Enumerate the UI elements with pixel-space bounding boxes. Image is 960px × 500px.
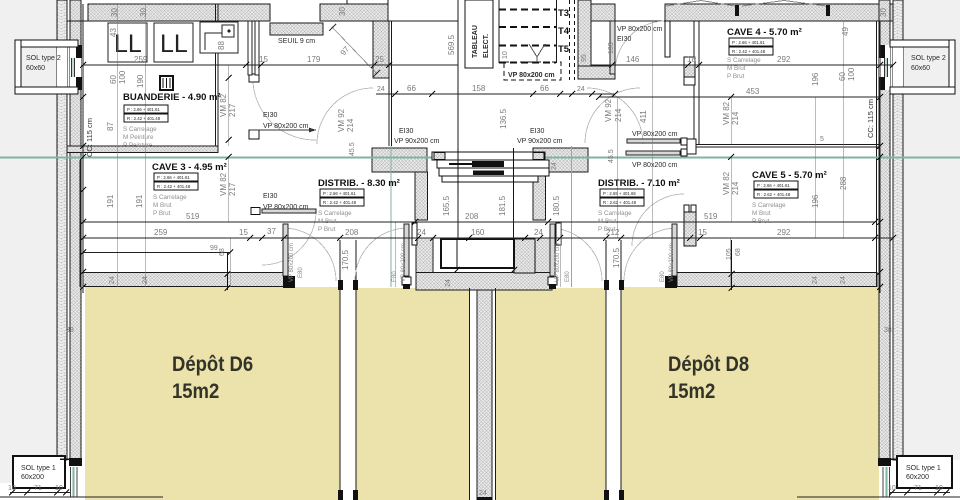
svg-text:15: 15	[239, 228, 248, 237]
dim line y94 center	[376, 93, 615, 95]
ticks y97 right	[596, 94, 883, 100]
elevator band C	[439, 168, 549, 176]
svg-text:103: 103	[608, 42, 615, 54]
svg-text:S Carrelage: S Carrelage	[598, 210, 632, 217]
jamb small cell2	[412, 223, 417, 245]
svg-text:100: 100	[847, 67, 856, 81]
svg-text:190: 190	[136, 74, 145, 88]
svg-text:43: 43	[109, 28, 118, 37]
svg-text:DISTRIB. - 8.30 m²: DISTRIB. - 8.30 m²	[318, 178, 400, 189]
svg-text:66: 66	[407, 84, 416, 93]
svg-text:30: 30	[139, 8, 148, 17]
window bottom-right	[879, 465, 890, 497]
svg-text:R : 2.42 + 401.48: R : 2.42 + 401.48	[323, 200, 357, 205]
door double leaves cave4/5	[627, 139, 680, 143]
stair direction arrow	[529, 44, 545, 57]
svg-text:214: 214	[731, 181, 740, 195]
svg-text:P Brut: P Brut	[153, 210, 171, 217]
finish table buanderie	[124, 105, 168, 122]
wall cell1/2 divider	[339, 240, 341, 500]
sol type 2 right box	[890, 40, 955, 94]
wall top inner line	[67, 20, 270, 22]
svg-text:15m2: 15m2	[172, 380, 219, 404]
svg-text:15m2: 15m2	[668, 380, 715, 404]
svg-text:60: 60	[109, 75, 118, 84]
wall stair right strip	[533, 172, 546, 220]
svg-text:66: 66	[540, 84, 549, 93]
wall interior right	[876, 21, 878, 287]
svg-text:VP 90x200 cm: VP 90x200 cm	[517, 138, 563, 145]
svg-text:VP 80x200 cm: VP 80x200 cm	[632, 162, 678, 169]
svg-text:CAVE 4 - 5.70 m²: CAVE 4 - 5.70 m²	[727, 27, 802, 38]
svg-text:453: 453	[746, 87, 760, 96]
wall seuil band	[270, 23, 323, 35]
room label depot D6	[172, 353, 253, 404]
svg-text:214: 214	[346, 118, 355, 132]
svg-text:5: 5	[820, 136, 824, 143]
svg-text:VP 80x200 cm: VP 80x200 cm	[401, 243, 407, 282]
door arcs (gray)	[253, 21, 684, 281]
svg-text:30: 30	[338, 7, 347, 16]
door leaf cave3 (horizontal)	[262, 209, 316, 213]
stem bottom cap	[477, 497, 492, 500]
svg-text:30: 30	[110, 8, 119, 17]
svg-text:18: 18	[687, 55, 696, 64]
dim extension lines	[117, 4, 843, 287]
svg-text:165.5: 165.5	[442, 195, 451, 216]
door jamb entrance	[248, 21, 252, 75]
elevator band B (dark)	[437, 160, 549, 168]
door jamb cave4 left	[684, 57, 695, 65]
tableau elect box	[465, 0, 493, 68]
svg-text:10: 10	[888, 485, 896, 492]
svg-text:P Brut: P Brut	[318, 226, 336, 233]
svg-text:24: 24	[142, 276, 149, 284]
sol type 1 left box	[13, 456, 65, 488]
svg-text:E80: E80	[660, 271, 666, 282]
ticks x880 vertical	[877, 62, 883, 290]
svg-text:10: 10	[8, 485, 16, 492]
svg-text:SOL type 1: SOL type 1	[906, 465, 941, 472]
wall top band segment 2 (entrance block)	[320, 4, 388, 21]
svg-text:179: 179	[307, 55, 321, 64]
dim line y222	[83, 221, 875, 223]
svg-text:CAVE 5 - 5.70 m²: CAVE 5 - 5.70 m²	[752, 170, 827, 181]
wall buanderie right	[215, 4, 217, 146]
svg-text:S Carrelage: S Carrelage	[752, 202, 786, 209]
room Depot D6 floor	[85, 287, 340, 500]
svg-text:VM 82: VM 82	[722, 101, 731, 125]
wall stair left x458	[457, 0, 459, 239]
wall buanderie/cave3 divider	[67, 146, 218, 153]
svg-text:CAVE 3 - 4.95 m²: CAVE 3 - 4.95 m²	[152, 162, 227, 173]
svg-text:P : 2.66 + 401.61: P : 2.66 + 401.61	[157, 175, 190, 180]
dim line y97 right	[599, 96, 880, 98]
svg-text:170.5: 170.5	[341, 249, 350, 270]
stair boundary dashed	[504, 0, 575, 80]
dim crossing D8 band	[731, 240, 733, 290]
svg-text:24: 24	[417, 228, 426, 237]
wall stair U bottom	[416, 273, 552, 291]
window bottom-left	[70, 465, 81, 497]
dim line bottom left	[0, 496, 163, 498]
svg-text:EI30: EI30	[263, 112, 278, 119]
svg-text:217: 217	[228, 182, 237, 196]
svg-text:60x200: 60x200	[906, 474, 929, 481]
wall above depot D8	[677, 273, 877, 287]
svg-text:170.5: 170.5	[612, 247, 621, 268]
svg-text:P : 2.69 + 401.65: P : 2.69 + 401.65	[603, 191, 636, 196]
svg-text:R : 2.42 + 401.48: R : 2.42 + 401.48	[157, 184, 191, 189]
svg-text:191: 191	[135, 194, 144, 208]
svg-text:160: 160	[471, 228, 485, 237]
ticks bottom	[9, 490, 69, 496]
svg-text:VP 80x200 cm: VP 80x200 cm	[289, 243, 295, 282]
door arc cave3	[262, 211, 316, 265]
svg-text:E80: E80	[298, 267, 304, 278]
svg-text:208: 208	[345, 228, 359, 237]
rotated dim numbers	[66, 7, 892, 334]
svg-text:VP 80x200 cm: VP 80x200 cm	[669, 243, 675, 282]
svg-text:CC: 115 cm: CC: 115 cm	[866, 99, 875, 138]
svg-text:38: 38	[66, 327, 74, 334]
svg-text:M Brut: M Brut	[598, 218, 617, 225]
appliance washer icon	[160, 76, 173, 90]
svg-text:214: 214	[614, 108, 623, 122]
svg-text:68: 68	[219, 248, 226, 256]
svg-text:LL: LL	[114, 30, 142, 58]
svg-text:VP 80x200 cm: VP 80x200 cm	[617, 26, 663, 33]
sol type 2 left box	[15, 40, 78, 94]
svg-text:M Brut: M Brut	[752, 210, 771, 217]
svg-text:136.5: 136.5	[499, 108, 508, 129]
svg-text:519: 519	[186, 212, 200, 221]
wall above depot D6	[83, 273, 284, 287]
svg-text:146: 146	[626, 55, 640, 64]
wall cell3/4 divider	[605, 240, 607, 500]
wall cave4 left	[693, 21, 695, 144]
roof outline above cave4	[666, 1, 826, 7]
svg-text:S Carrelage: S Carrelage	[123, 126, 157, 133]
svg-text:S Carrelage: S Carrelage	[727, 57, 761, 64]
svg-text:VM 92: VM 92	[604, 98, 613, 122]
svg-text:S Carrelage: S Carrelage	[318, 210, 352, 217]
ticks x83 vertical	[80, 62, 86, 290]
svg-text:VP 90x200 cm: VP 90x200 cm	[394, 138, 440, 145]
ticks y94	[392, 91, 618, 97]
svg-text:24: 24	[840, 276, 847, 284]
door arc depot D8	[624, 228, 675, 281]
svg-text:158: 158	[472, 84, 486, 93]
door arc cave5	[632, 194, 684, 246]
wall stair right upper	[533, 148, 588, 172]
wall stub right of cave4 door	[665, 21, 670, 57]
svg-text:E80: E80	[392, 271, 398, 282]
dim crossing D6 band	[227, 253, 229, 290]
svg-text:T3: T3	[558, 8, 569, 19]
svg-text:49: 49	[841, 27, 850, 36]
svg-text:E80: E80	[565, 271, 571, 282]
svg-text:ELECT.: ELECT.	[483, 34, 490, 58]
svg-text:P : 2.66 + 401.61: P : 2.66 + 401.61	[757, 183, 790, 188]
svg-text:10: 10	[55, 485, 63, 492]
dim vertical x83	[82, 21, 84, 293]
svg-text:R : 2.42 + 401.48: R : 2.42 + 401.48	[732, 49, 766, 54]
room cell2 floor	[356, 288, 469, 500]
svg-text:24: 24	[534, 228, 543, 237]
wall stair U right	[535, 238, 552, 290]
door swing line buanderie	[250, 129, 316, 131]
door arc cell3	[551, 228, 602, 281]
room cell3 floor	[496, 288, 606, 500]
door arc corridor right	[585, 88, 640, 143]
dim line bottom right	[797, 496, 960, 498]
svg-text:45.5: 45.5	[608, 149, 615, 163]
wall stair U left	[416, 238, 433, 290]
svg-text:P : 2.66 + 401.61: P : 2.66 + 401.61	[732, 40, 765, 45]
stair treads dashed	[499, 10, 556, 63]
stair landing guard	[514, 239, 535, 273]
svg-text:68: 68	[735, 248, 742, 256]
door leaf depot D6 (open)	[283, 224, 288, 276]
svg-text:24: 24	[812, 276, 819, 284]
wall right exterior	[893, 0, 903, 460]
svg-text:217: 217	[228, 103, 237, 117]
svg-text:VP 80x200 cm: VP 80x200 cm	[632, 131, 678, 138]
wall stair top strip	[578, 0, 591, 79]
svg-text:TABLEAU: TABLEAU	[472, 25, 479, 58]
svg-text:259: 259	[154, 228, 168, 237]
svg-text:VP 80x200 cm: VP 80x200 cm	[263, 123, 309, 130]
wall stair left strip	[415, 172, 428, 220]
svg-text:196: 196	[811, 72, 820, 86]
svg-text:71: 71	[34, 485, 42, 492]
svg-text:VM 82: VM 82	[219, 172, 228, 196]
svg-text:60x60: 60x60	[911, 65, 930, 72]
svg-text:R : 2.62 + 401.48: R : 2.62 + 401.48	[757, 192, 791, 197]
wall entrance pier	[373, 21, 389, 78]
door leaf cave4 top (open)	[610, 21, 615, 74]
svg-text:88: 88	[217, 41, 226, 50]
wall corridor left x389	[388, 21, 390, 146]
svg-text:P Brut: P Brut	[727, 73, 745, 80]
svg-text:T5: T5	[558, 44, 570, 55]
wall center stem edges	[469, 288, 471, 500]
svg-text:VP 80x200 cm: VP 80x200 cm	[508, 72, 555, 79]
sol type 1 right box	[897, 456, 952, 488]
svg-text:71: 71	[914, 485, 922, 492]
svg-text:214: 214	[731, 111, 740, 125]
svg-text:519: 519	[704, 212, 718, 221]
svg-text:15: 15	[698, 228, 707, 237]
ticks y238	[80, 235, 896, 241]
dim line y238 full	[83, 237, 893, 239]
svg-text:45.5: 45.5	[349, 142, 356, 156]
svg-text:100: 100	[118, 70, 127, 84]
door frame cave4/5	[681, 138, 687, 145]
svg-text:M Brut: M Brut	[727, 65, 746, 72]
svg-text:P : 2.66 + 401.61: P : 2.66 + 401.61	[323, 191, 356, 196]
door leaf cell2 (open)	[404, 224, 409, 276]
svg-text:87: 87	[106, 122, 115, 131]
svg-text:37: 37	[267, 227, 276, 236]
svg-text:24: 24	[577, 86, 585, 93]
svg-text:M Brut: M Brut	[153, 202, 172, 209]
svg-text:24: 24	[109, 276, 116, 284]
room label depot D8	[668, 353, 749, 404]
svg-text:60x60: 60x60	[26, 65, 45, 72]
svg-text:P Peinture: P Peinture	[123, 142, 153, 149]
svg-text:24: 24	[445, 279, 452, 287]
svg-text:S Carrelage: S Carrelage	[153, 194, 187, 201]
door arc buanderie	[253, 83, 316, 140]
svg-text:25: 25	[375, 55, 384, 64]
svg-text:24: 24	[377, 86, 385, 93]
svg-text:95: 95	[581, 54, 588, 62]
door arc cave4 top	[615, 21, 664, 72]
svg-text:M Brut: M Brut	[318, 218, 337, 225]
svg-text:T4: T4	[558, 26, 570, 37]
door jamb cave5	[684, 205, 689, 212]
wall cave4/5 divider	[694, 144, 880, 146]
svg-text:SOL type 1: SOL type 1	[21, 465, 56, 472]
svg-text:EI30: EI30	[617, 36, 632, 43]
wall stair tread edge	[498, 0, 500, 63]
svg-text:Dépôt D8: Dépôt D8	[668, 353, 749, 377]
svg-text:30: 30	[879, 8, 888, 17]
wall stair left upper	[372, 148, 427, 172]
door labels rotated	[289, 243, 675, 282]
svg-text:259: 259	[134, 55, 148, 64]
room Depot D8 floor	[621, 287, 879, 500]
svg-text:BUANDERIE - 4.90 m²: BUANDERIE - 4.90 m²	[123, 92, 221, 103]
wall top band segment 3	[591, 4, 615, 21]
svg-text:292: 292	[777, 228, 791, 237]
elevator band A	[432, 152, 545, 160]
jamb caps cell walls	[338, 280, 624, 500]
wall exterior edges	[56, 0, 58, 460]
door arc cell2	[355, 228, 406, 281]
appliance LL box 2	[154, 23, 193, 62]
svg-text:EI30: EI30	[530, 128, 545, 135]
svg-text:196: 196	[811, 194, 820, 208]
wall top band segment 4	[665, 4, 893, 21]
svg-text:VM 92: VM 92	[337, 108, 346, 132]
svg-text:180.5: 180.5	[552, 195, 561, 216]
svg-text:105: 105	[726, 248, 733, 260]
svg-text:24: 24	[551, 162, 558, 170]
svg-text:R : 2.42 + 401.48: R : 2.42 + 401.48	[127, 116, 161, 121]
svg-text:R : 2.62 + 401.48: R : 2.62 + 401.48	[603, 200, 637, 205]
window left (CC 115)	[57, 45, 82, 90]
svg-text:292: 292	[777, 55, 791, 64]
door arc depot D6	[285, 228, 336, 281]
appliance boiler	[200, 22, 238, 53]
section line vertical right (teal)	[571, 146, 573, 287]
exterior ground left	[0, 0, 57, 483]
svg-text:DISTRIB. - 7.10 m²: DISTRIB. - 7.10 m²	[598, 178, 680, 189]
svg-text:288: 288	[839, 176, 848, 190]
svg-text:60: 60	[838, 72, 847, 81]
door arc distrib left	[317, 88, 373, 144]
svg-text:VP 80x200 cm: VP 80x200 cm	[555, 243, 561, 282]
svg-text:EI30: EI30	[399, 128, 414, 135]
svg-text:EI30: EI30	[263, 193, 278, 200]
diagonal dim 97	[332, 27, 377, 74]
svg-text:191: 191	[106, 194, 115, 208]
svg-text:P : 2.66 + 401.61: P : 2.66 + 401.61	[127, 107, 160, 112]
door leaf depot D8 (open)	[672, 224, 677, 276]
svg-text:15: 15	[259, 55, 268, 64]
svg-text:181.5: 181.5	[498, 195, 507, 216]
wall left exterior	[57, 0, 67, 460]
elevator band D	[442, 176, 538, 182]
svg-text:411: 411	[639, 110, 648, 123]
svg-text:60x200: 60x200	[21, 474, 44, 481]
door leaf cell3 (open)	[550, 224, 555, 276]
svg-text:99: 99	[210, 245, 218, 252]
svg-text:10: 10	[935, 485, 943, 492]
svg-text:569.5: 569.5	[447, 34, 456, 55]
door jamb cave3	[251, 208, 260, 215]
door jamb buanderie	[249, 74, 259, 82]
svg-text:Dépôt D6: Dépôt D6	[172, 353, 253, 377]
svg-text:24: 24	[479, 490, 487, 497]
svg-text:VP 80x200 cm: VP 80x200 cm	[263, 204, 309, 211]
svg-text:SEUIL 9 cm: SEUIL 9 cm	[278, 38, 315, 45]
svg-text:CC: 115 cm: CC: 115 cm	[85, 118, 94, 157]
ticks y222	[80, 219, 878, 256]
wall center stem	[477, 290, 492, 500]
svg-text:SOL type 2: SOL type 2	[911, 55, 946, 62]
ticks y65	[80, 62, 896, 68]
appliance LL box 1	[108, 23, 147, 62]
svg-text:P Brut: P Brut	[598, 226, 616, 233]
svg-text:M Peinture: M Peinture	[123, 134, 154, 141]
svg-text:VM 82: VM 82	[722, 171, 731, 195]
svg-text:208: 208	[465, 212, 479, 221]
svg-text:SOL type 2: SOL type 2	[26, 55, 61, 62]
window right (CC 115)	[879, 45, 903, 90]
svg-text:LL: LL	[160, 30, 188, 58]
section line horizontal (teal)	[0, 157, 960, 159]
exterior ground right	[903, 0, 960, 460]
svg-text:10: 10	[502, 51, 509, 59]
svg-text:38: 38	[884, 327, 892, 334]
section line vertical left (teal)	[390, 146, 392, 287]
svg-text:P Brut: P Brut	[752, 218, 770, 225]
door arc distrib right	[587, 88, 643, 144]
